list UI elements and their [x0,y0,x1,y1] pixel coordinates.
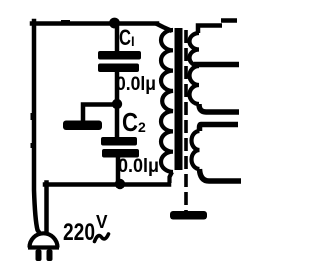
wire left mains [34,21,40,233]
transformer ground bar [170,211,207,220]
secondary S2 winding [192,131,200,169]
junction dot bottom [115,179,125,189]
label ~ [95,234,109,242]
secondary S2 bottom lead [200,169,242,181]
junction dot mid [112,99,122,109]
wire nub on left mains 2 [31,143,34,148]
transformer T1 primary winding [161,30,173,172]
wire right mains drop [44,183,49,232]
svg-text:V: V [96,211,108,232]
secondary S1 winding lower [190,66,200,104]
ground (left) bar [63,121,102,131]
wire C1 top lead [115,24,120,52]
svg-text:0.0lμ: 0.0lμ [118,155,159,177]
svg-text:220: 220 [63,219,95,246]
svg-text:0.0lμ: 0.0lμ [116,73,156,95]
svg-text:l: l [131,34,135,49]
secondary S1 top lead [198,21,237,34]
transformer core solid [175,28,183,170]
plug base [28,245,59,249]
capacitor C1 plates [98,51,141,72]
secondary S1 bottom lead [199,104,239,112]
secondary S2 top lead [200,125,239,132]
wire nub on top bus [61,20,70,23]
transformer T1 primary top lead [156,24,172,32]
wire C2 bottom lead [116,157,121,184]
plug prong right [47,250,53,262]
secondary S1 winding upper [190,33,200,66]
plug prong left [36,250,42,262]
transformer core dashed [184,30,188,211]
plug (mains) dome [30,233,58,247]
wire nub on left mains [31,113,34,120]
capacitor C2 plates [101,137,139,158]
wire bottom bus [45,182,169,187]
wire C1-C2 mid lead [115,72,120,137]
wire top bus [32,21,157,26]
secondary S1 tap [194,62,239,68]
wire ground branch [83,105,115,122]
transformer T1 primary bottom lead [170,172,173,183]
svg-text:C: C [122,107,138,137]
svg-text:C: C [119,25,131,50]
junction dot top [109,18,120,29]
svg-text:2: 2 [138,119,146,135]
